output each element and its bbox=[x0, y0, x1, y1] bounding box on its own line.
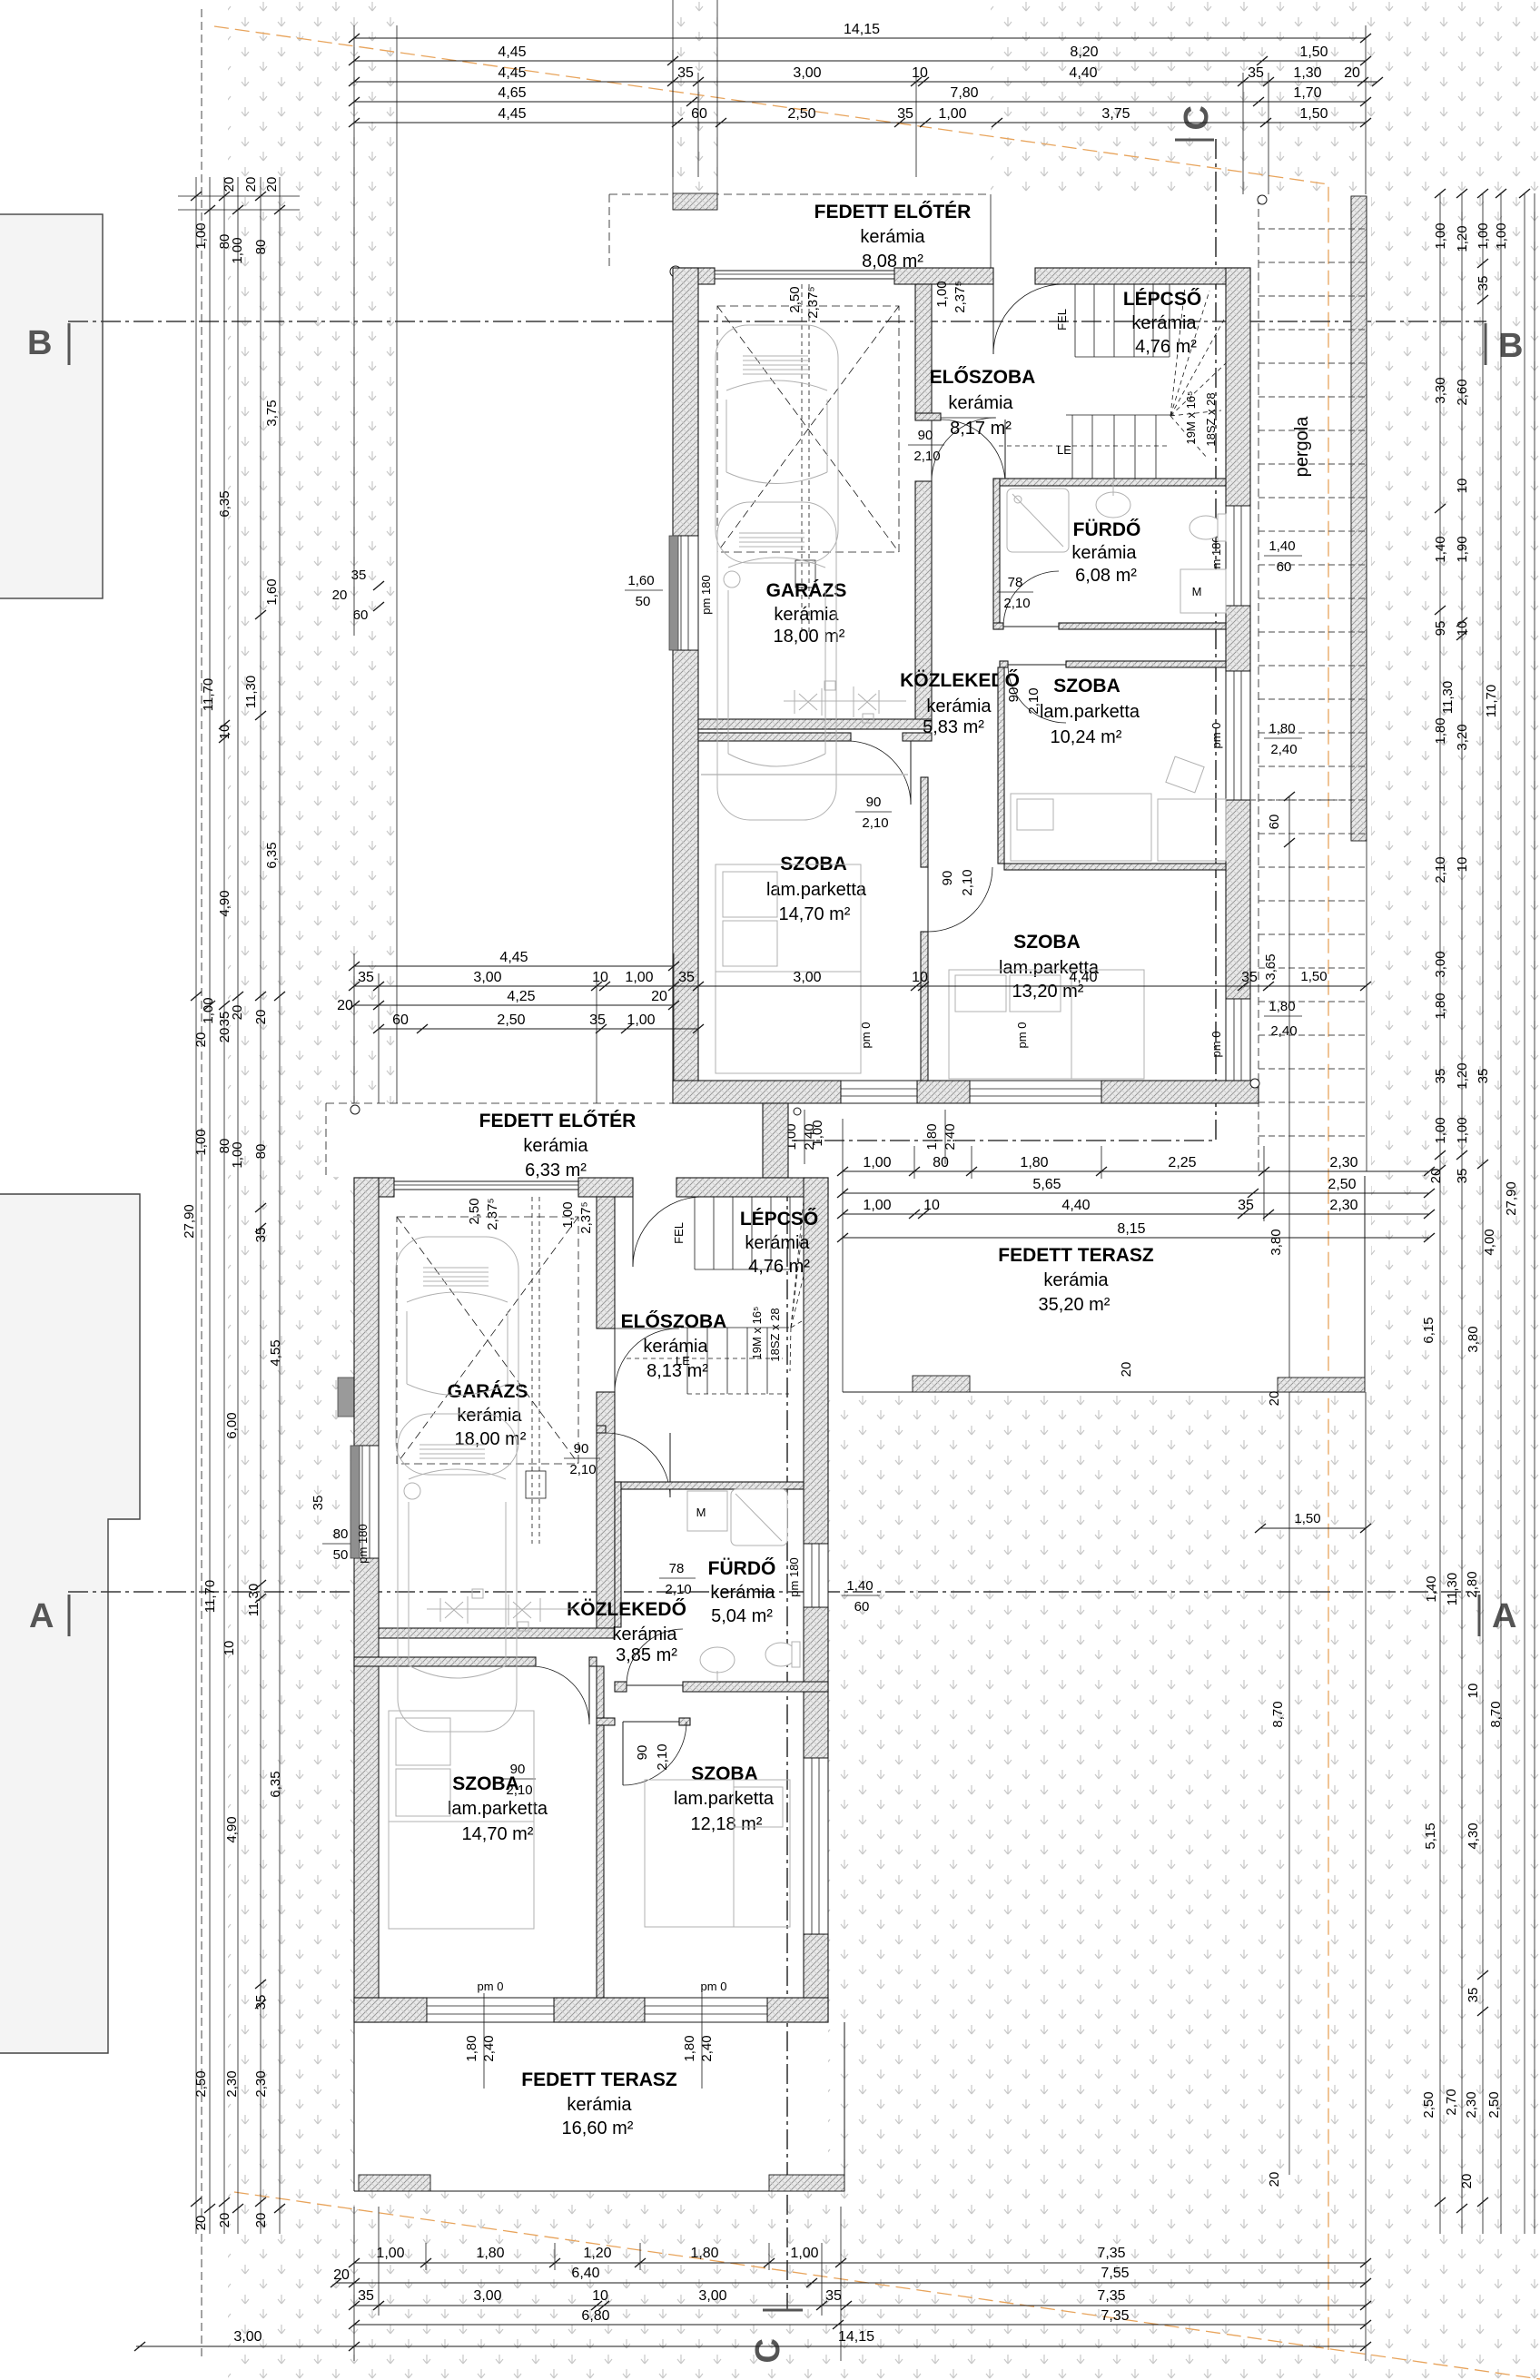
svg-text:20: 20 bbox=[1344, 65, 1360, 81]
toilet lower bbox=[765, 1643, 796, 1666]
bath left wall lower bbox=[615, 1482, 621, 1627]
svg-text:20: 20 bbox=[217, 2213, 232, 2228]
window bottom B2 bbox=[970, 1081, 1101, 1103]
svg-text:60: 60 bbox=[392, 1012, 409, 1028]
window bottom lower L1 bbox=[427, 1998, 554, 2022]
szoba13 left wall bbox=[921, 777, 928, 867]
svg-text:6,35: 6,35 bbox=[264, 842, 280, 868]
svg-text:3,00: 3,00 bbox=[1433, 951, 1448, 977]
section marker C top bbox=[1175, 139, 1214, 142]
svg-text:kerámia: kerámia bbox=[523, 1136, 588, 1156]
bed szoba14 bbox=[716, 864, 861, 1073]
svg-text:11,30: 11,30 bbox=[243, 676, 259, 708]
bicycles lower bbox=[427, 1589, 581, 1631]
stairs lower flight bbox=[999, 415, 1174, 481]
svg-text:8,20: 8,20 bbox=[1070, 44, 1098, 60]
bath door bbox=[1003, 626, 1059, 627]
svg-text:1,80: 1,80 bbox=[682, 2035, 697, 2061]
svg-text:20: 20 bbox=[333, 2267, 350, 2283]
hall stub wall and door lower bbox=[597, 1426, 606, 1433]
window right bath lower bbox=[804, 1544, 828, 1607]
mid dimension rows right of lower building bbox=[837, 1119, 1435, 1242]
garage bottom wall bbox=[698, 719, 932, 729]
svg-text:6,15: 6,15 bbox=[1421, 1317, 1436, 1343]
svg-text:35: 35 bbox=[351, 568, 367, 583]
svg-text:19M x 16⁵: 19M x 16⁵ bbox=[1184, 391, 1198, 445]
svg-text:20: 20 bbox=[1119, 1362, 1134, 1378]
door corridor to szoba14 lower bbox=[588, 1666, 590, 1724]
svg-text:M: M bbox=[1192, 585, 1202, 598]
svg-text:FEL: FEL bbox=[672, 1222, 686, 1244]
svg-text:35: 35 bbox=[1433, 1069, 1448, 1084]
svg-text:27,90: 27,90 bbox=[182, 1204, 197, 1239]
svg-text:1,80: 1,80 bbox=[1269, 721, 1295, 736]
left dimension chain bbox=[136, 177, 361, 2346]
svg-text:pm 0: pm 0 bbox=[1209, 1032, 1223, 1058]
svg-text:3,80: 3,80 bbox=[1269, 1229, 1284, 1255]
svg-text:1,80: 1,80 bbox=[476, 2246, 504, 2261]
svg-text:35: 35 bbox=[897, 106, 913, 122]
svg-text:35: 35 bbox=[1238, 1198, 1254, 1213]
svg-text:1,80: 1,80 bbox=[1433, 992, 1448, 1019]
svg-text:GARÁZS: GARÁZS bbox=[766, 580, 847, 601]
svg-text:20: 20 bbox=[253, 1010, 269, 1025]
sink lower bbox=[700, 1647, 735, 1673]
svg-text:35: 35 bbox=[1241, 970, 1258, 985]
entry door lower bbox=[632, 1197, 634, 1267]
bed szoba14 lower bbox=[389, 1711, 534, 1929]
window right W2 bbox=[1226, 671, 1250, 800]
svg-text:3,00: 3,00 bbox=[793, 970, 821, 985]
svg-text:kerámia: kerámia bbox=[1043, 1270, 1109, 1290]
svg-text:2,10: 2,10 bbox=[1433, 856, 1448, 883]
svg-text:2,40: 2,40 bbox=[1270, 1023, 1297, 1039]
svg-text:B: B bbox=[1498, 327, 1523, 365]
svg-text:FEL: FEL bbox=[1055, 309, 1069, 331]
svg-text:8,15: 8,15 bbox=[1117, 1221, 1145, 1237]
svg-text:90: 90 bbox=[1006, 687, 1022, 703]
svg-text:2,40: 2,40 bbox=[699, 2035, 715, 2061]
svg-text:pergola: pergola bbox=[1292, 416, 1312, 478]
svg-text:20: 20 bbox=[193, 1032, 209, 1048]
svg-text:1,00: 1,00 bbox=[1455, 1117, 1470, 1143]
svg-text:4,65: 4,65 bbox=[498, 85, 526, 101]
garage-hall door lower bbox=[615, 1328, 679, 1329]
svg-text:1,80: 1,80 bbox=[690, 2246, 718, 2261]
svg-text:20: 20 bbox=[222, 177, 237, 193]
svg-text:1,00: 1,00 bbox=[1433, 222, 1448, 249]
svg-text:1,20: 1,20 bbox=[583, 2246, 611, 2261]
car 2 lower bbox=[398, 1414, 517, 1732]
svg-text:1,00: 1,00 bbox=[863, 1198, 891, 1213]
svg-text:4,76 m²: 4,76 m² bbox=[748, 1257, 810, 1277]
bicycles bbox=[784, 681, 906, 723]
grass pattern bottom strip bbox=[397, 2191, 1371, 2380]
svg-text:6,33 m²: 6,33 m² bbox=[525, 1160, 587, 1180]
svg-text:14,15: 14,15 bbox=[844, 22, 880, 37]
svg-text:14,70 m²: 14,70 m² bbox=[462, 1824, 534, 1844]
svg-text:pm 180: pm 180 bbox=[787, 1557, 801, 1596]
svg-text:1,70: 1,70 bbox=[1293, 85, 1321, 101]
svg-text:60: 60 bbox=[1277, 559, 1292, 575]
svg-text:3,00: 3,00 bbox=[698, 2288, 726, 2304]
svg-text:3,20: 3,20 bbox=[1455, 724, 1470, 750]
svg-text:1,00: 1,00 bbox=[1494, 222, 1509, 249]
svg-text:lam.parketta: lam.parketta bbox=[674, 1789, 775, 1809]
svg-text:2,37⁵: 2,37⁵ bbox=[953, 281, 968, 312]
svg-text:1,00: 1,00 bbox=[376, 2246, 404, 2261]
svg-text:kerámia: kerámia bbox=[948, 393, 1013, 413]
svg-text:1,00: 1,00 bbox=[230, 1141, 245, 1168]
section line C vertical top bbox=[787, 139, 1216, 2311]
svg-text:1,90: 1,90 bbox=[1455, 536, 1470, 562]
svg-text:60: 60 bbox=[353, 607, 369, 623]
svg-text:1,00: 1,00 bbox=[1433, 1117, 1448, 1143]
svg-text:10: 10 bbox=[1455, 621, 1470, 637]
svg-text:35: 35 bbox=[358, 2288, 374, 2304]
svg-text:3,30: 3,30 bbox=[1433, 377, 1448, 403]
wall left bbox=[673, 268, 698, 536]
svg-text:1,00: 1,00 bbox=[863, 1155, 891, 1170]
section marker A left bbox=[68, 1595, 71, 1636]
svg-text:20: 20 bbox=[1267, 2172, 1282, 2187]
svg-text:35: 35 bbox=[1248, 65, 1264, 81]
svg-text:2,50: 2,50 bbox=[787, 286, 803, 312]
svg-text:FÜRDŐ: FÜRDŐ bbox=[1073, 519, 1141, 540]
svg-text:SZOBA: SZOBA bbox=[1013, 932, 1081, 953]
szoba10 left wall bbox=[998, 667, 1004, 864]
corridor to szoba12 door lower bbox=[597, 1718, 615, 1725]
svg-text:kerámia: kerámia bbox=[860, 227, 925, 247]
szoba10/13 wall bbox=[1004, 864, 1226, 870]
window right szoba12 lower bbox=[804, 1758, 828, 1934]
svg-text:90: 90 bbox=[940, 871, 955, 886]
svg-text:4,30: 4,30 bbox=[1466, 1822, 1481, 1849]
window dims under upper building bbox=[784, 1110, 958, 1164]
FEDETT TERASZ upper (35,20) bbox=[843, 796, 1371, 2175]
szoba14 top wall lower bbox=[354, 1657, 536, 1666]
stairs lower unit upper flight bbox=[695, 1197, 790, 1269]
svg-text:5,83 m²: 5,83 m² bbox=[923, 717, 984, 737]
hall stub wall and door bbox=[915, 413, 941, 420]
door corridor to szoba14 bbox=[910, 741, 912, 805]
orange regulation line top diagonal bbox=[214, 26, 1328, 2350]
svg-text:10: 10 bbox=[592, 970, 608, 985]
svg-text:1,00: 1,00 bbox=[193, 222, 209, 249]
mid dimension rows above lower building bbox=[337, 950, 1371, 1103]
svg-text:3,00: 3,00 bbox=[233, 2329, 262, 2345]
neighbour building bottom-left bbox=[0, 1194, 140, 2053]
window bottom B1 bbox=[841, 1081, 917, 1103]
svg-text:35,20 m²: 35,20 m² bbox=[1039, 1295, 1111, 1315]
wall bottom lower bbox=[354, 1998, 427, 2022]
svg-text:16,60 m²: 16,60 m² bbox=[562, 2118, 634, 2138]
svg-text:2,37⁵: 2,37⁵ bbox=[485, 1198, 500, 1230]
wall top lower bbox=[354, 1178, 394, 1197]
svg-text:18SZ x 28: 18SZ x 28 bbox=[1204, 392, 1218, 446]
svg-text:10: 10 bbox=[1466, 1684, 1481, 1699]
svg-text:20: 20 bbox=[1267, 1391, 1282, 1407]
car 1 bbox=[716, 325, 838, 563]
svg-text:3,75: 3,75 bbox=[1101, 106, 1130, 122]
sink bbox=[1096, 492, 1130, 518]
svg-text:60: 60 bbox=[854, 1599, 870, 1615]
svg-text:4,45: 4,45 bbox=[499, 950, 528, 965]
top dimension chain bbox=[349, 22, 1383, 636]
svg-text:6,40: 6,40 bbox=[571, 2266, 599, 2281]
covered entry dashed boundary lower bbox=[326, 1103, 754, 1178]
svg-text:2,40: 2,40 bbox=[943, 1123, 958, 1150]
svg-text:1,40: 1,40 bbox=[846, 1578, 873, 1594]
garage bottom wall lower bbox=[379, 1628, 615, 1638]
svg-text:FEDETT TERASZ: FEDETT TERASZ bbox=[521, 2069, 677, 2090]
svg-text:27,90: 27,90 bbox=[1504, 1181, 1519, 1216]
svg-text:60: 60 bbox=[691, 106, 707, 122]
svg-text:B: B bbox=[27, 324, 52, 362]
svg-text:90: 90 bbox=[635, 1745, 650, 1761]
garage right wall bbox=[915, 284, 932, 418]
svg-text:19M x 16⁵: 19M x 16⁵ bbox=[750, 1307, 764, 1360]
svg-text:kerámia: kerámia bbox=[926, 696, 992, 716]
svg-text:2,40: 2,40 bbox=[481, 2035, 497, 2061]
svg-text:1,00: 1,00 bbox=[790, 2246, 818, 2261]
svg-text:10: 10 bbox=[923, 1198, 940, 1213]
svg-text:M: M bbox=[696, 1506, 706, 1519]
UPPER BUILDING bbox=[609, 0, 1328, 1103]
szoba12 left wall lower bbox=[597, 1666, 604, 1718]
svg-text:2,50: 2,50 bbox=[787, 106, 815, 122]
toilet bbox=[1190, 516, 1222, 539]
svg-text:8,13 m²: 8,13 m² bbox=[647, 1361, 708, 1381]
szoba10 top wall bbox=[1000, 661, 1008, 667]
svg-text:2,30: 2,30 bbox=[1464, 2091, 1479, 2118]
svg-text:11,70: 11,70 bbox=[202, 1580, 218, 1613]
gate post lower unit bbox=[338, 1378, 354, 1417]
svg-text:1,20: 1,20 bbox=[1455, 1062, 1470, 1089]
window bottom lower L2 bbox=[645, 1998, 767, 2022]
svg-text:pm 0: pm 0 bbox=[701, 1980, 727, 1993]
svg-text:78: 78 bbox=[669, 1561, 685, 1576]
garage door top bbox=[715, 271, 894, 279]
svg-text:50: 50 bbox=[333, 1547, 349, 1563]
svg-text:90: 90 bbox=[918, 428, 933, 443]
svg-text:1,30: 1,30 bbox=[1293, 65, 1321, 81]
svg-text:1,00: 1,00 bbox=[627, 1012, 655, 1028]
svg-text:ELŐSZOBA: ELŐSZOBA bbox=[621, 1311, 727, 1332]
svg-text:1,40: 1,40 bbox=[1269, 538, 1295, 554]
bath top wall lower bbox=[615, 1482, 804, 1489]
svg-text:1,00: 1,00 bbox=[934, 281, 950, 307]
svg-text:4,45: 4,45 bbox=[498, 65, 526, 81]
svg-text:20: 20 bbox=[264, 177, 280, 193]
svg-text:35: 35 bbox=[311, 1496, 326, 1511]
svg-text:7,35: 7,35 bbox=[1097, 2246, 1125, 2261]
svg-text:1,80: 1,80 bbox=[1020, 1155, 1048, 1170]
svg-text:2,50: 2,50 bbox=[1486, 2091, 1502, 2118]
svg-text:7,80: 7,80 bbox=[950, 85, 978, 101]
svg-text:2,70: 2,70 bbox=[1444, 2089, 1459, 2115]
svg-text:1,00: 1,00 bbox=[810, 1120, 825, 1146]
svg-text:80: 80 bbox=[333, 1526, 349, 1542]
svg-text:35: 35 bbox=[1476, 276, 1491, 291]
svg-text:pm 180: pm 180 bbox=[699, 575, 713, 614]
svg-text:3,75: 3,75 bbox=[264, 400, 280, 426]
svg-text:1,00: 1,00 bbox=[1476, 222, 1491, 249]
washing machine bbox=[1180, 569, 1226, 613]
window garage left bbox=[673, 536, 698, 650]
svg-text:kerámia: kerámia bbox=[457, 1406, 522, 1426]
svg-text:10: 10 bbox=[1455, 479, 1470, 494]
svg-text:3,00: 3,00 bbox=[473, 970, 501, 985]
svg-text:3,00: 3,00 bbox=[473, 2288, 501, 2304]
bath left wall bbox=[993, 479, 1000, 629]
window right W3 bbox=[1226, 999, 1250, 1103]
grass pattern left band bbox=[228, 0, 397, 1103]
svg-text:4,00: 4,00 bbox=[1482, 1229, 1497, 1255]
svg-text:3,85 m²: 3,85 m² bbox=[616, 1645, 677, 1665]
svg-text:1,80: 1,80 bbox=[464, 2035, 479, 2061]
svg-text:2,30: 2,30 bbox=[1329, 1155, 1357, 1170]
svg-text:LÉPCSŐ: LÉPCSŐ bbox=[740, 1209, 818, 1230]
lot fence line at pattern band edge bbox=[396, 25, 398, 1103]
svg-text:50: 50 bbox=[636, 594, 651, 609]
node circle top-left corner bbox=[670, 266, 681, 277]
svg-text:1,80: 1,80 bbox=[1433, 717, 1448, 744]
svg-text:2,40: 2,40 bbox=[1270, 742, 1297, 757]
svg-text:35: 35 bbox=[253, 1228, 269, 1243]
svg-text:3,65: 3,65 bbox=[1263, 953, 1278, 980]
window right W1 bbox=[1226, 506, 1250, 606]
garage-hall door bbox=[932, 417, 996, 419]
svg-text:10: 10 bbox=[1455, 857, 1470, 873]
garage right wall lower bbox=[597, 1197, 615, 1328]
connecting wall pier between buildings bbox=[763, 1103, 788, 1178]
wall top bbox=[673, 268, 715, 284]
bath top wall bbox=[993, 479, 1226, 486]
section marker C bottom bbox=[763, 2309, 803, 2312]
svg-text:2,60: 2,60 bbox=[1455, 379, 1470, 405]
bed szoba12 lower bbox=[645, 1780, 790, 1927]
svg-text:lam.parketta: lam.parketta bbox=[1040, 702, 1140, 722]
svg-text:80: 80 bbox=[933, 1155, 949, 1170]
grass pattern top right bbox=[991, 0, 1540, 194]
svg-text:1,50: 1,50 bbox=[1294, 1511, 1320, 1526]
svg-text:1,00: 1,00 bbox=[938, 106, 966, 122]
LOWER BUILDING bbox=[311, 1103, 880, 2022]
svg-text:14,15: 14,15 bbox=[838, 2329, 874, 2345]
svg-text:7,35: 7,35 bbox=[1097, 2288, 1125, 2304]
svg-text:80: 80 bbox=[253, 1144, 269, 1160]
svg-text:FEDETT ELŐTÉR: FEDETT ELŐTÉR bbox=[814, 202, 972, 222]
svg-text:pm 0: pm 0 bbox=[1015, 1022, 1029, 1049]
svg-text:SZOBA: SZOBA bbox=[1053, 676, 1120, 696]
svg-text:6,80: 6,80 bbox=[581, 2308, 609, 2324]
svg-text:6,00: 6,00 bbox=[224, 1412, 240, 1438]
fence band bbox=[672, 0, 674, 193]
svg-text:10: 10 bbox=[912, 970, 928, 985]
svg-text:4,90: 4,90 bbox=[217, 890, 232, 916]
lot boundary dashed line left bbox=[201, 9, 202, 2361]
svg-text:FEDETT ELŐTÉR: FEDETT ELŐTÉR bbox=[479, 1111, 637, 1131]
bath bottom wall bbox=[993, 623, 1003, 629]
svg-text:35: 35 bbox=[358, 970, 374, 985]
white notch left of lower entry bbox=[322, 1104, 359, 1177]
door corridor to szoba13 bbox=[927, 867, 929, 932]
svg-text:6,08 m²: 6,08 m² bbox=[1075, 566, 1137, 586]
svg-text:1,50: 1,50 bbox=[1300, 969, 1327, 984]
section marker B left bbox=[68, 323, 71, 365]
svg-text:2,30: 2,30 bbox=[253, 2070, 269, 2097]
svg-text:11,30: 11,30 bbox=[1440, 681, 1456, 714]
grass pattern fence band top bbox=[673, 0, 717, 193]
svg-text:2,50: 2,50 bbox=[1328, 1177, 1356, 1192]
svg-text:4,25: 4,25 bbox=[507, 989, 535, 1004]
svg-text:12,18 m²: 12,18 m² bbox=[691, 1814, 763, 1834]
svg-text:2,10: 2,10 bbox=[1003, 596, 1030, 611]
section line A bbox=[68, 1591, 1480, 1593]
wall right bbox=[1226, 268, 1250, 506]
svg-text:11,70: 11,70 bbox=[1484, 685, 1499, 717]
washing machine lower bbox=[687, 1491, 727, 1531]
bottom dimension chains bbox=[134, 1392, 1371, 2361]
svg-text:4,40: 4,40 bbox=[1069, 65, 1097, 81]
svg-text:kerámia: kerámia bbox=[643, 1337, 708, 1357]
svg-text:4,90: 4,90 bbox=[224, 1816, 240, 1842]
svg-text:10: 10 bbox=[592, 2288, 608, 2304]
svg-text:35: 35 bbox=[1476, 1069, 1491, 1084]
svg-text:KÖZLEKEDŐ: KÖZLEKEDŐ bbox=[567, 1599, 686, 1620]
svg-text:pm 0: pm 0 bbox=[1209, 723, 1223, 749]
svg-text:35: 35 bbox=[677, 65, 694, 81]
svg-text:6,35: 6,35 bbox=[217, 490, 232, 517]
svg-text:2,10: 2,10 bbox=[960, 869, 975, 895]
svg-text:LÉPCSŐ: LÉPCSŐ bbox=[1123, 289, 1201, 310]
pergola strip bbox=[1235, 195, 1367, 1171]
svg-text:2,10: 2,10 bbox=[913, 449, 940, 464]
svg-text:3,80: 3,80 bbox=[1466, 1326, 1481, 1352]
garage door top lower bbox=[394, 1181, 578, 1190]
section line B bbox=[68, 321, 1486, 322]
svg-text:lam.parketta: lam.parketta bbox=[766, 880, 867, 900]
svg-text:20: 20 bbox=[337, 998, 353, 1013]
svg-text:11,70: 11,70 bbox=[201, 678, 216, 711]
svg-text:4,40: 4,40 bbox=[1069, 970, 1097, 985]
svg-text:5,15: 5,15 bbox=[1423, 1822, 1438, 1849]
svg-text:1,00: 1,00 bbox=[625, 970, 653, 985]
FEDETT TERASZ lower (16,60) bbox=[354, 1993, 844, 2191]
svg-text:4,40: 4,40 bbox=[1061, 1198, 1090, 1213]
svg-text:5,04 m²: 5,04 m² bbox=[711, 1606, 773, 1626]
szoba14 top wall bbox=[698, 733, 851, 741]
svg-text:1,40: 1,40 bbox=[1433, 536, 1448, 562]
svg-text:10: 10 bbox=[912, 65, 928, 81]
svg-text:2,30: 2,30 bbox=[1329, 1198, 1357, 1213]
svg-text:20: 20 bbox=[230, 1005, 245, 1021]
svg-text:8,70: 8,70 bbox=[1270, 1701, 1286, 1727]
svg-text:2,80: 2,80 bbox=[1465, 1571, 1480, 1597]
svg-text:35: 35 bbox=[589, 1012, 606, 1028]
svg-text:1,00: 1,00 bbox=[193, 1129, 209, 1155]
svg-text:2,37⁵: 2,37⁵ bbox=[805, 286, 821, 318]
svg-text:kerámia: kerámia bbox=[745, 1233, 810, 1253]
svg-text:20: 20 bbox=[217, 1028, 232, 1043]
bed szoba13 bbox=[949, 970, 1144, 1079]
svg-text:18SZ x 28: 18SZ x 28 bbox=[768, 1308, 782, 1361]
svg-text:A: A bbox=[29, 1597, 54, 1635]
svg-text:SZOBA: SZOBA bbox=[452, 1773, 519, 1794]
door to szoba10 bbox=[1008, 664, 1066, 666]
svg-text:20: 20 bbox=[1459, 2174, 1475, 2189]
